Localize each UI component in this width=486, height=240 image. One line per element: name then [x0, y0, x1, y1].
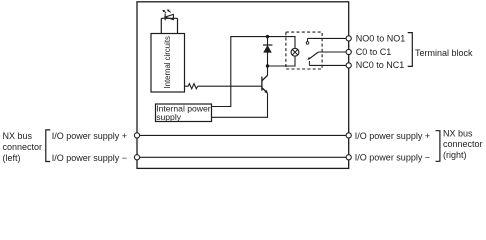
wire power supply to coil	[212, 37, 296, 107]
resistor R1	[185, 84, 198, 89]
relay coil	[291, 48, 299, 56]
terminal right -	[346, 155, 351, 160]
bracket NX bus left	[46, 130, 50, 162]
internal power supply block	[156, 104, 212, 122]
svg-text:I/O power supply −: I/O power supply −	[52, 153, 127, 163]
wire base	[198, 85, 262, 87]
LED emission arrows	[164, 11, 171, 13]
terminal right +	[346, 133, 351, 138]
svg-text:I/O power supply +: I/O power supply +	[355, 131, 430, 141]
svg-text:I/O power supply +: I/O power supply +	[52, 131, 127, 141]
svg-text:(left): (left)	[3, 153, 21, 163]
svg-text:I/O power supply −: I/O power supply −	[355, 153, 430, 163]
terminal NO0	[346, 36, 351, 41]
svg-text:connector: connector	[3, 142, 43, 152]
LED D1	[165, 14, 173, 21]
unit outline	[137, 2, 349, 169]
wire emitter	[212, 93, 268, 117]
relay contact NO	[307, 38, 309, 41]
bracket terminal block	[408, 33, 413, 67]
wire collector	[267, 66, 269, 76]
wire NC	[309, 64, 346, 66]
wire NO	[308, 37, 347, 39]
svg-text:C0 to C1: C0 to C1	[356, 47, 392, 57]
wire coil return	[268, 56, 296, 66]
node diode bottom	[266, 64, 269, 67]
svg-text:connector: connector	[443, 139, 483, 149]
relay K1 dashed box	[286, 32, 322, 69]
terminal NC0	[346, 63, 351, 68]
diode D2 flyback	[267, 37, 269, 66]
internal circuits block	[151, 34, 185, 93]
svg-text:NX bus: NX bus	[3, 131, 33, 141]
bus I/O power supply +	[140, 134, 347, 136]
terminal left +	[134, 133, 139, 138]
svg-text:Terminal block: Terminal block	[415, 48, 473, 58]
LED indicator box	[161, 18, 177, 33]
svg-text:NX bus: NX bus	[443, 129, 473, 139]
transistor Q1	[262, 75, 268, 93]
terminal C0	[346, 49, 351, 54]
svg-text:supply: supply	[156, 112, 182, 122]
bus I/O power supply -	[140, 156, 347, 158]
relay contact NC stub	[308, 61, 310, 65]
terminal left -	[134, 155, 139, 160]
relay contact lever	[309, 52, 319, 59]
bracket NX bus right	[436, 131, 440, 162]
svg-text:NO0 to NO1: NO0 to NO1	[356, 34, 406, 44]
svg-text:Internal circuits: Internal circuits	[163, 36, 172, 89]
node diode top	[266, 35, 269, 38]
svg-text:NC0 to NC1: NC0 to NC1	[356, 60, 405, 70]
wire C	[319, 51, 347, 53]
svg-text:(right): (right)	[443, 150, 467, 160]
